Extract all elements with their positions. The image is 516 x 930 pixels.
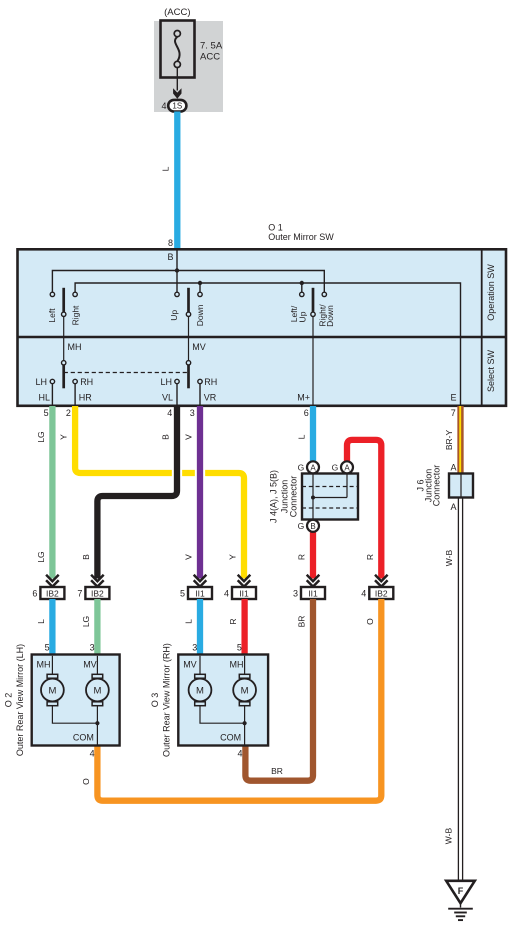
svg-text:Select SW: Select SW xyxy=(486,349,496,392)
svg-text:Outer Rear View Mirror (LH): Outer Rear View Mirror (LH) xyxy=(15,644,25,756)
svg-text:II1: II1 xyxy=(195,588,205,598)
wire W-B xyxy=(457,498,459,881)
svg-text:4: 4 xyxy=(167,408,172,418)
svg-text:Down: Down xyxy=(325,305,335,327)
svg-text:2: 2 xyxy=(66,408,71,418)
connector 4 II1 xyxy=(224,575,256,599)
svg-text:Up: Up xyxy=(169,310,179,321)
svg-text:3: 3 xyxy=(192,643,197,653)
select levers xyxy=(62,365,65,388)
svg-text:LG: LG xyxy=(36,431,46,442)
wire L to RH mirror xyxy=(197,599,203,655)
svg-text:M: M xyxy=(196,686,204,697)
wire B xyxy=(97,406,177,579)
stub to Down contact xyxy=(199,283,201,292)
lever MH operation xyxy=(62,288,65,312)
svg-text:3: 3 xyxy=(190,408,195,418)
svg-text:A: A xyxy=(450,462,456,472)
svg-text:6: 6 xyxy=(304,408,309,418)
motor MH RH xyxy=(233,656,256,706)
bus 2 xyxy=(75,283,460,405)
svg-text:Y: Y xyxy=(228,554,238,560)
svg-text:M: M xyxy=(93,686,101,697)
svg-text:VL: VL xyxy=(162,393,173,403)
svg-text:Right: Right xyxy=(70,305,80,325)
wire from fuse to connector 1S xyxy=(176,68,178,91)
contact Up xyxy=(175,292,179,296)
switch O1 Outer Mirror SW box xyxy=(18,249,507,405)
select contact LH (MV) xyxy=(175,379,179,383)
svg-text:4: 4 xyxy=(161,101,166,111)
connector 5 II1 xyxy=(180,575,212,599)
wire L to LH mirror xyxy=(49,599,55,655)
halo under V wire xyxy=(195,466,205,481)
halo under B wire xyxy=(172,466,182,481)
connector 4 IB2 xyxy=(361,575,393,599)
select contact LH (MH) xyxy=(50,379,54,383)
svg-text:4: 4 xyxy=(90,749,95,759)
svg-text:G: G xyxy=(298,521,305,531)
motor O3 Outer Rear View Mirror RH box xyxy=(178,655,268,746)
wire LG xyxy=(49,406,55,579)
svg-text:HL: HL xyxy=(38,393,50,403)
svg-text:G: G xyxy=(298,463,305,473)
svg-text:W-B: W-B xyxy=(444,827,454,844)
svg-text:Connector: Connector xyxy=(288,476,298,518)
terminal A left xyxy=(307,461,319,473)
svg-text:COM: COM xyxy=(73,733,94,743)
svg-text:MH: MH xyxy=(37,660,51,670)
svg-text:J 4(A), J 5(B): J 4(A), J 5(B) xyxy=(269,470,279,523)
select contact RH (MV) xyxy=(198,379,202,383)
contact Down xyxy=(198,292,202,296)
junction dot bus2 Left/Up xyxy=(300,281,304,285)
contact Right/Down xyxy=(322,292,326,296)
connector oval 1S xyxy=(168,100,186,112)
stubs from select contacts to box bottom xyxy=(51,384,53,405)
svg-text:M: M xyxy=(241,686,249,697)
svg-text:IB2: IB2 xyxy=(91,588,104,598)
svg-text:LH: LH xyxy=(35,377,47,387)
svg-text:O: O xyxy=(81,778,91,785)
svg-text:7: 7 xyxy=(77,588,82,598)
svg-text:L: L xyxy=(297,434,307,439)
svg-text:R: R xyxy=(365,554,375,560)
junction connector J6 box xyxy=(449,474,473,498)
connector 7 IB2 xyxy=(77,575,109,599)
svg-text:B: B xyxy=(161,434,171,440)
svg-text:RH: RH xyxy=(204,377,217,387)
svg-text:VR: VR xyxy=(204,393,217,403)
svg-text:V: V xyxy=(184,434,194,440)
svg-text:A: A xyxy=(310,463,316,472)
ground F xyxy=(446,881,475,903)
svg-text:F: F xyxy=(458,886,464,896)
svg-text:4: 4 xyxy=(361,588,366,598)
terminal A right xyxy=(341,461,353,473)
svg-text:MV: MV xyxy=(192,342,206,352)
svg-text:LG: LG xyxy=(81,616,91,627)
fuse block background xyxy=(154,21,223,112)
svg-text:LG: LG xyxy=(36,551,46,562)
svg-text:II1: II1 xyxy=(239,588,249,598)
wire L to junction xyxy=(310,406,316,461)
COM link LH xyxy=(52,706,97,724)
svg-text:MH: MH xyxy=(230,660,244,670)
svg-text:B: B xyxy=(81,554,91,560)
svg-text:Operation SW: Operation SW xyxy=(486,264,496,321)
wire R from junction B to connector xyxy=(310,532,316,579)
motor MV RH xyxy=(189,656,212,706)
arrow into connector 1S xyxy=(173,88,181,98)
svg-text:E: E xyxy=(450,393,456,403)
svg-text:W-B: W-B xyxy=(444,549,454,566)
motor MV LH xyxy=(86,656,109,706)
internal links xyxy=(312,474,314,520)
wire R from junction A right xyxy=(347,440,381,579)
motor MH LH xyxy=(41,656,64,706)
svg-text:O: O xyxy=(365,618,375,625)
svg-text:Up: Up xyxy=(297,311,307,322)
lever MV operation xyxy=(187,288,190,312)
svg-text:RH: RH xyxy=(80,377,93,387)
svg-text:M: M xyxy=(48,686,56,697)
junction dot on bus1 xyxy=(175,268,179,272)
svg-text:O 2: O 2 xyxy=(4,693,14,708)
svg-text:5: 5 xyxy=(237,643,242,653)
svg-text:B: B xyxy=(167,252,173,262)
connector 6 IB2 xyxy=(32,575,64,599)
svg-text:BR: BR xyxy=(297,616,307,628)
connector 3 II1 xyxy=(293,575,325,599)
svg-text:Left: Left xyxy=(47,308,57,323)
wire R to RH mirror xyxy=(241,599,247,655)
svg-text:G: G xyxy=(332,463,339,473)
svg-text:4: 4 xyxy=(224,588,229,598)
section divider horizontal xyxy=(18,336,507,339)
contact Left xyxy=(50,292,54,296)
wire from B terminal down xyxy=(176,250,178,292)
svg-text:MV: MV xyxy=(83,660,97,670)
svg-text:4: 4 xyxy=(237,749,242,759)
motor O2 Outer Rear View Mirror LH box xyxy=(32,655,120,746)
wire BR from connector 3 II1 to RH mirror xyxy=(245,599,313,781)
svg-text:5: 5 xyxy=(45,643,50,653)
terminal B bottom xyxy=(307,520,319,532)
lever M+ xyxy=(312,288,315,312)
svg-text:IB2: IB2 xyxy=(46,588,59,598)
stub to Left/Up contact xyxy=(301,283,303,292)
svg-text:8: 8 xyxy=(168,238,173,248)
svg-text:O 3: O 3 xyxy=(150,693,160,708)
svg-text:MH: MH xyxy=(68,342,82,352)
svg-text:R: R xyxy=(297,554,307,560)
wire O from connector 4 IB2 to LH mirror xyxy=(97,599,381,801)
svg-text:IB2: IB2 xyxy=(375,588,388,598)
wire V xyxy=(197,406,203,579)
svg-text:6: 6 xyxy=(32,588,37,598)
junction connector J4(A) J5(B) box xyxy=(302,474,358,520)
junction dot bus2 Down xyxy=(198,281,202,285)
svg-text:1S: 1S xyxy=(172,102,182,111)
dashed link between select levers xyxy=(64,372,189,374)
svg-text:7: 7 xyxy=(451,408,456,418)
svg-text:BR-Y: BR-Y xyxy=(444,430,454,451)
svg-text:ACC: ACC xyxy=(200,52,220,63)
svg-text:Y: Y xyxy=(59,434,69,440)
svg-text:COM: COM xyxy=(220,733,241,743)
svg-text:Connector: Connector xyxy=(432,465,442,507)
svg-text:HR: HR xyxy=(79,393,92,403)
svg-text:7. 5A: 7. 5A xyxy=(200,41,223,52)
svg-text:(ACC): (ACC) xyxy=(164,7,190,18)
svg-text:V: V xyxy=(184,554,194,560)
COM link RH xyxy=(200,706,245,724)
svg-text:B: B xyxy=(310,522,315,531)
svg-text:BR: BR xyxy=(271,766,283,776)
svg-text:II1: II1 xyxy=(308,588,318,598)
svg-text:O 1: O 1 xyxy=(268,223,283,233)
svg-text:Outer Rear View Mirror (RH): Outer Rear View Mirror (RH) xyxy=(162,643,172,757)
svg-text:A: A xyxy=(344,463,350,472)
svg-text:L: L xyxy=(184,619,194,624)
svg-text:A: A xyxy=(450,502,456,512)
svg-text:3: 3 xyxy=(90,643,95,653)
svg-text:L: L xyxy=(36,619,46,624)
wire BR-Y xyxy=(457,406,463,474)
svg-text:MV: MV xyxy=(183,660,197,670)
svg-text:R: R xyxy=(228,618,238,624)
contact Left/Up xyxy=(300,292,304,296)
select pivots xyxy=(62,361,66,365)
wire LG to LH mirror xyxy=(94,599,100,655)
svg-text:5: 5 xyxy=(44,408,49,418)
select contact RH (MH) xyxy=(73,379,77,383)
svg-text:M+: M+ xyxy=(297,393,310,403)
bus 1 xyxy=(52,271,324,293)
wire L (blue) from 1S to Outer Mirror SW xyxy=(174,112,180,251)
svg-text:Outer Mirror SW: Outer Mirror SW xyxy=(268,232,334,242)
svg-text:3: 3 xyxy=(293,588,298,598)
svg-text:LH: LH xyxy=(160,377,172,387)
wire Y xyxy=(75,406,244,579)
section divider vertical xyxy=(481,249,483,405)
svg-text:Down: Down xyxy=(195,304,205,326)
fuse 7.5A ACC xyxy=(161,21,195,78)
contact Right xyxy=(73,292,77,296)
svg-text:L: L xyxy=(161,166,171,171)
svg-text:5: 5 xyxy=(180,588,185,598)
